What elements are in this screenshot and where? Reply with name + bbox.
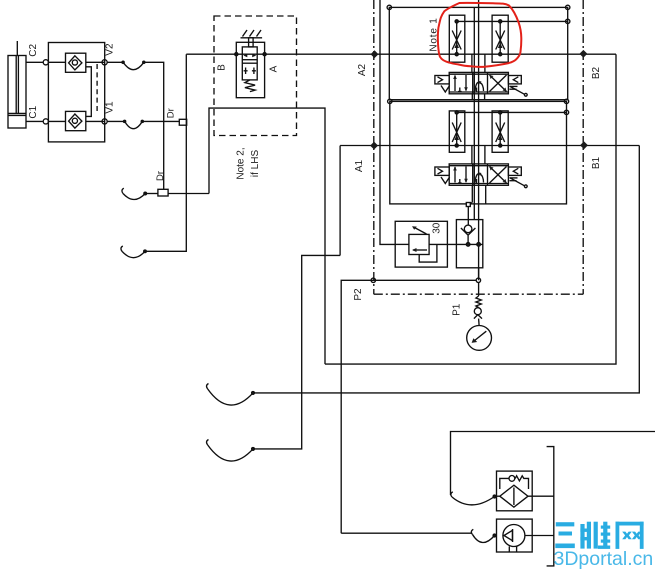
check valve top — [66, 53, 86, 72]
pressure gauge — [467, 326, 492, 351]
valve2 bottom ports — [471, 185, 473, 202]
svg-text:A1: A1 — [354, 159, 365, 172]
node V1 — [102, 119, 107, 124]
P1 check — [474, 308, 481, 315]
svg-text:B2: B2 — [591, 66, 602, 79]
lower pilot line — [457, 111, 567, 113]
relief valve block — [395, 221, 447, 267]
P2 wire — [341, 280, 476, 533]
wire A1 — [340, 145, 639, 147]
valve note2 — [235, 30, 267, 98]
node square — [466, 203, 470, 207]
svg-text:A2: A2 — [357, 63, 368, 76]
hose break motor — [473, 535, 495, 543]
P1 spring — [476, 296, 481, 308]
svg-text:V2: V2 — [105, 43, 116, 56]
valve2 pilot right + lever — [508, 167, 527, 188]
riser — [209, 108, 325, 364]
wire C2 — [26, 61, 43, 63]
cylinder — [8, 41, 26, 128]
watermark — [554, 522, 654, 570]
hose break lower-left 2 — [122, 251, 145, 257]
wire C2 to check valve — [48, 61, 65, 63]
svg-text:Note 2,: Note 2, — [236, 147, 247, 179]
wire to Dr box lower — [145, 193, 158, 195]
svg-text:C2: C2 — [28, 43, 39, 56]
bank dash-dot boundary bottom — [374, 293, 583, 295]
wire P1 port — [478, 283, 480, 297]
Dr port box upper — [179, 119, 186, 125]
hose break lower — [208, 445, 253, 461]
valve1 pilot left — [435, 76, 450, 93]
valve1 bottom ports — [471, 94, 473, 100]
wire to check — [467, 207, 469, 226]
check valve bottom — [66, 111, 86, 130]
manifold block — [48, 43, 104, 142]
svg-text:C1: C1 — [28, 105, 39, 118]
lower section rect — [390, 101, 567, 203]
motor feed wire — [341, 532, 471, 534]
A1 hose wire — [253, 255, 340, 449]
wire check valve to V2 — [86, 61, 105, 63]
A1 riser — [339, 146, 341, 256]
node C1 — [43, 119, 48, 124]
pilot line dashed — [96, 64, 98, 112]
shock valve upper-right — [492, 15, 508, 62]
svg-text:P2: P2 — [353, 288, 364, 301]
svg-text:B: B — [217, 64, 228, 71]
shock valve lower-left — [449, 111, 465, 153]
filter out wire — [528, 495, 554, 497]
main pressure line — [395, 243, 409, 245]
wire C1 to check valve — [48, 120, 65, 122]
svg-text:3Dportal.cn: 3Dportal.cn — [554, 548, 654, 570]
directional valve 1 — [449, 72, 508, 93]
red annotation circle — [438, 3, 522, 67]
bank dash-dot boundary left — [373, 0, 375, 294]
hose break filter — [452, 497, 495, 505]
hose break Dr line — [123, 194, 145, 200]
hose break A1-line — [208, 389, 253, 405]
svg-text:if LHS: if LHS — [250, 150, 261, 178]
Dr port box lower — [158, 189, 168, 196]
hose break V2 — [123, 62, 144, 69]
node — [476, 278, 480, 282]
svg-text:30: 30 — [431, 222, 442, 234]
svg-text:Dr: Dr — [155, 171, 166, 181]
node V2 — [102, 60, 107, 65]
note2 dashed enclosure — [214, 16, 297, 136]
svg-text:P1: P1 — [451, 303, 462, 316]
wire C1 — [26, 120, 43, 122]
shock valve lower-right — [492, 111, 508, 153]
B2 loop wire — [325, 54, 616, 364]
wire check valve to V1 — [86, 120, 105, 122]
return line to filter — [451, 432, 655, 496]
wire P gallery lower — [478, 268, 480, 278]
wire Dr to riser — [168, 193, 209, 195]
crossing diamonds — [371, 50, 379, 58]
svg-text:Dr: Dr — [166, 108, 177, 118]
svg-text:V1: V1 — [105, 101, 116, 114]
valve2 pilot left — [435, 167, 450, 184]
node C2 — [43, 60, 48, 65]
motor — [497, 519, 533, 552]
upper pilot line — [457, 20, 568, 22]
wire B2 from valve1 — [484, 54, 486, 72]
valve1 pilot right + lever — [508, 76, 527, 97]
wire B1 from valve2 — [484, 146, 486, 164]
check valve block — [456, 220, 482, 268]
directional valve 2 — [449, 164, 508, 185]
wire V2 — [107, 61, 123, 63]
bank dash-dot boundary right — [582, 0, 584, 294]
shock valve upper-left — [449, 15, 465, 62]
bank outer solid boundary — [380, 0, 395, 244]
svg-text:B1: B1 — [591, 156, 602, 169]
wire A1 elbow to valve2 — [471, 146, 473, 164]
gallery P — [478, 0, 480, 280]
node circle on dashdot — [371, 278, 375, 282]
wire V1 to Dr port — [142, 120, 179, 122]
gallery T — [473, 7, 475, 219]
wire B line through valve — [186, 53, 616, 55]
pilot line solid — [86, 67, 92, 117]
filter — [497, 471, 533, 511]
wire vertical from valve B line — [145, 54, 186, 251]
upper section rect — [389, 7, 567, 99]
B1 loop wire — [253, 146, 639, 393]
wire A2 elbow to valve1 — [471, 54, 473, 72]
motor out wire — [525, 535, 554, 537]
wire V1 — [107, 120, 124, 122]
tank bracket — [547, 447, 554, 566]
wire V2 down to Dr — [144, 62, 164, 189]
hose break V1 — [125, 121, 143, 128]
svg-text:A: A — [268, 65, 279, 72]
